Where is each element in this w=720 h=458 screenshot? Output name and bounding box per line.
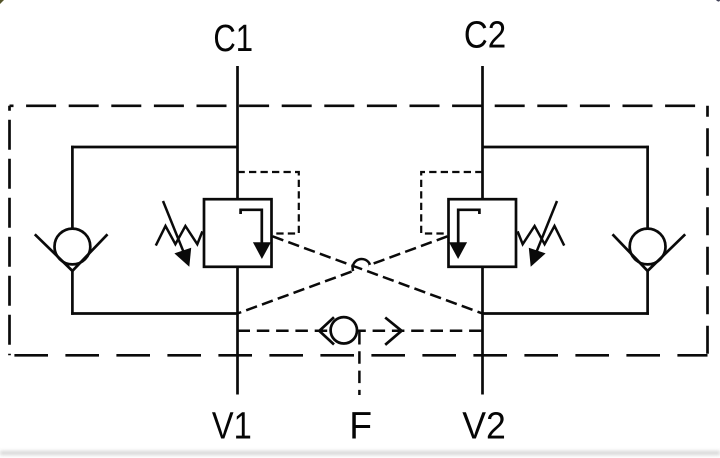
wire C2 to V2 lower vertical (481, 267, 484, 395)
flow path arrow inside right valve (458, 210, 479, 243)
check valve CV2 seat (613, 234, 686, 271)
check valve CV1 ball (55, 229, 91, 265)
svg-text:F: F (349, 406, 372, 448)
flow path arrow inside left valve (241, 210, 262, 243)
pilot check valve ball (331, 317, 357, 343)
valve body boundary right edge (706, 106, 709, 355)
scan artifact top-left corner (0, 0, 4, 4)
scan artifact bottom smudge (0, 451, 720, 455)
valve body boundary bottom edge (10, 354, 708, 357)
adjustable spring left (156, 226, 203, 246)
wire left bypass bottom branch (71, 312, 237, 315)
check valve CV2 ball (630, 229, 666, 265)
check valve CV1 seat (35, 234, 108, 271)
wire right bypass top branch (483, 146, 649, 149)
free flow direction arrow (385, 318, 401, 345)
flow arrowhead left valve (253, 242, 271, 259)
crossed pilot line right valve to V1 junction (lower part) (238, 272, 352, 314)
spring arrowhead left (174, 248, 191, 267)
pilot line short-dash from C1 to left valve (238, 172, 299, 234)
pilot port F vertical dashed (358, 332, 361, 395)
adjustable spring right (518, 226, 565, 246)
wire right bypass lower vertical (646, 270, 649, 315)
pilot line short-dash from C2 to right valve (421, 172, 482, 234)
valve body boundary top edge (10, 104, 708, 107)
wire C2 upper vertical (481, 66, 484, 199)
wire left bypass upper vertical (71, 146, 74, 230)
wire right bypass upper vertical (646, 146, 649, 230)
spring arrowhead right (529, 248, 546, 267)
crossed pilot line left valve to V2 junction (273, 236, 483, 313)
counterbalance valve body left (204, 199, 272, 267)
counterbalance valve body right (449, 199, 517, 267)
valve body boundary left edge (8, 106, 11, 355)
wire left bypass top branch (71, 146, 237, 149)
spring adjustment arrow right (534, 201, 557, 258)
svg-text:C1: C1 (213, 18, 253, 60)
wire C1 to V1 lower vertical (236, 267, 239, 395)
svg-text:V2: V2 (462, 406, 506, 448)
pilot drain horizontal dashed line (238, 330, 483, 333)
pilot line crossing hop arc (353, 259, 370, 271)
svg-text:C2: C2 (464, 15, 506, 57)
flow arrowhead right valve (449, 242, 467, 259)
wire left bypass lower vertical (71, 270, 74, 315)
crossed pilot line right valve to V1 junction (upper part) (368, 236, 447, 265)
wire right bypass bottom branch (483, 312, 649, 315)
spring adjustment arrow left (163, 201, 186, 258)
scan artifact top-right corner (716, 0, 720, 2)
wire C1 upper vertical (236, 66, 239, 199)
svg-text:V1: V1 (212, 406, 252, 448)
pilot check valve seat (319, 317, 334, 344)
